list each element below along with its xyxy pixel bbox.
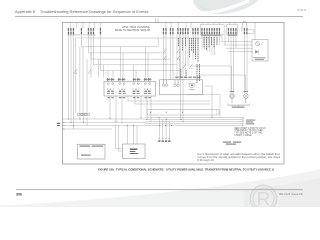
terminal wire-number labels (vertical text columns) bbox=[68, 28, 248, 36]
wire: top distribution bus bbox=[76, 37, 213, 39]
wire stubs above terminal labels bbox=[70, 23, 235, 28]
wire: main horizontal bus bbox=[63, 118, 243, 130]
fuse symbol bbox=[242, 21, 247, 31]
wire tag text bbox=[223, 142, 241, 145]
svg-text:962-0126 (Issue 16): 962-0126 (Issue 16) bbox=[279, 192, 303, 196]
labels under relay box bbox=[108, 97, 151, 98]
drawing title text bbox=[115, 25, 151, 32]
wire: stair-step routing to connectors bbox=[188, 66, 246, 118]
wire drops: right terminal strip bbox=[202, 23, 255, 94]
svg-text:CHART 1 TABLE: CHART 1 TABLE bbox=[234, 134, 252, 137]
wire: lamp box feeders bbox=[222, 42, 253, 52]
motor box bbox=[123, 144, 146, 159]
svg-text:PAGE TO NEUTRAL SEQ-06: PAGE TO NEUTRAL SEQ-06 bbox=[115, 28, 151, 32]
watermark circled R logo bbox=[250, 185, 276, 211]
header rule bbox=[15, 15, 303, 18]
left connector circles row bbox=[77, 113, 90, 116]
lamp box label bbox=[254, 57, 266, 59]
wire: relay box lower leads bbox=[110, 96, 151, 124]
wire drops: bottom terminal row bbox=[159, 118, 169, 139]
connector plug symbols bbox=[230, 92, 248, 103]
B+ label bbox=[57, 123, 60, 126]
timing chart note bbox=[234, 127, 266, 137]
reference ticks above frame bbox=[156, 19, 159, 24]
bus end labels bbox=[246, 120, 256, 125]
hanging vertical wire-name labels bbox=[178, 37, 218, 83]
underline below left clusters bbox=[67, 34, 96, 37]
source available lamp box bbox=[252, 40, 268, 62]
svg-text:5-47-6: 5-47-6 bbox=[297, 8, 306, 12]
schematic border frame bbox=[63, 23, 285, 165]
terminal strip boxes bbox=[200, 25, 237, 35]
wire drops: centre contact group bbox=[164, 35, 199, 122]
wire: connector bracket bbox=[228, 104, 250, 106]
diode row above relay box bbox=[106, 78, 151, 81]
small label box right of fuse bbox=[247, 30, 254, 33]
note paragraph text bbox=[197, 152, 280, 162]
watermark top swoosh bbox=[193, 0, 258, 14]
svg-text:FIGURE 106. TYPICAL CONDITION: FIGURE 106. TYPICAL CONDITIONAL SCHEMATI… bbox=[98, 168, 274, 172]
bottom terminal row bbox=[159, 138, 170, 139]
wire loops: nested routing to relay box bbox=[80, 38, 181, 113]
wire: motor box leads bbox=[116, 125, 138, 151]
wire: intermediate pair to bus bbox=[128, 96, 210, 104]
junction dots bbox=[63, 117, 212, 130]
harness outline box bbox=[147, 110, 219, 116]
bracket under connectors bbox=[228, 104, 250, 107]
auxiliary contact box bbox=[160, 80, 203, 95]
svg-text:306: 306 bbox=[16, 192, 22, 196]
footer rule bbox=[16, 188, 303, 191]
legend box: manual switch note bbox=[78, 144, 106, 159]
svg-text:Appendix E Troubleshooting: Appendix E Troubleshooting Reference Dra… bbox=[15, 9, 148, 14]
bus line end ticks bbox=[242, 116, 244, 126]
svg-text:6 through 10.: 6 through 10. bbox=[197, 158, 214, 162]
watermark bottom swoosh bbox=[0, 169, 320, 207]
wire: connector row leads bbox=[80, 117, 87, 126]
relay contact symbols bbox=[74, 49, 192, 74]
wire bundle: left feeder drops bbox=[69, 35, 101, 129]
text above contact box bbox=[175, 77, 200, 78]
relay coil terminal box bbox=[104, 81, 156, 96]
svg-text:R: R bbox=[257, 190, 271, 208]
